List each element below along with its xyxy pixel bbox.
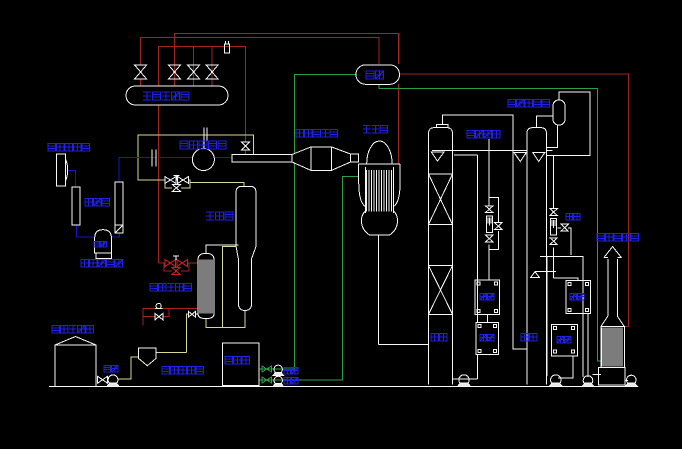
HX4 drop to pump	[558, 356, 573, 378]
label absorber 2	[521, 334, 537, 341]
silencer right	[115, 182, 123, 225]
evaporator vessel	[236, 186, 256, 310]
manifold M2 bypass valve	[155, 313, 163, 320]
water pump 1	[273, 365, 284, 375]
manifold M1 red valve B	[177, 260, 188, 267]
yellow bypass line	[138, 157, 165, 180]
yellow bypass valves line	[176, 179, 178, 181]
column1 bottoms line	[453, 378, 478, 380]
valve V2	[169, 65, 181, 79]
air filter	[56, 154, 67, 186]
water valve 2	[262, 377, 272, 383]
red manifold M1 main line	[159, 262, 166, 264]
spray nozzle flag 3	[533, 152, 545, 161]
valve V5 steam to duct	[242, 142, 250, 150]
spray feed line	[432, 150, 527, 152]
pump 5	[582, 376, 594, 387]
label HX2	[480, 334, 494, 340]
absorber column 2	[527, 128, 547, 385]
yellow bypass loop right	[181, 180, 190, 188]
water valve 1	[262, 366, 272, 372]
air duct	[232, 155, 292, 163]
bypass tee instrument	[173, 176, 179, 181]
tail gas stack arrow	[604, 247, 621, 258]
steam drum vessel	[356, 65, 400, 85]
spray nozzle flag 4	[531, 272, 540, 278]
second line valve upper	[550, 209, 557, 216]
manifold M1 bypass valve	[172, 268, 180, 275]
green drum bottom to tail-gas unit	[379, 84, 601, 361]
red steam header H1	[175, 34, 400, 87]
tail gas base	[599, 368, 626, 386]
column 1 overhead line	[442, 115, 527, 349]
pump 4	[549, 375, 562, 387]
yellow evaporator side line	[223, 247, 236, 328]
yellow preheater box top	[138, 135, 253, 157]
second line side valve	[561, 224, 568, 231]
red manifold M2 bypass right	[163, 308, 169, 316]
green cooling water to oxidizer	[260, 176, 359, 380]
wire red drum to oxidizer	[398, 84, 400, 164]
product take-off line	[454, 154, 478, 156]
label roots blower	[81, 260, 123, 267]
label muffler	[85, 199, 110, 206]
red manifold M1 bypass right	[181, 263, 189, 271]
blue air line preheater to duct	[214, 157, 232, 159]
label methanol tank	[52, 326, 94, 333]
label product outlet	[467, 131, 500, 138]
manifold M2 instrument valve	[155, 303, 163, 308]
plate HX 4	[552, 324, 578, 356]
second product line with valves	[554, 155, 579, 280]
label tail gas unit	[597, 234, 639, 241]
pump5 to stack base	[593, 374, 601, 376]
plate HX 3	[566, 281, 590, 314]
label methanol filter	[162, 367, 204, 374]
yellow bypass to evaporator	[189, 180, 244, 186]
methanol filter	[139, 348, 157, 366]
valve V3	[188, 65, 200, 79]
HX1 to HX2 connector	[486, 315, 488, 323]
blue air line blower to check box	[111, 233, 119, 237]
column 2 lower spray line	[535, 270, 556, 272]
oxidizer vessel	[359, 141, 401, 345]
label water pumps	[284, 367, 298, 373]
product bypass valve	[495, 223, 502, 230]
product valve lower	[486, 235, 494, 242]
red manifold M1 to reboiler	[188, 262, 199, 264]
methanol metering tank	[55, 337, 96, 387]
label demister	[508, 100, 550, 107]
HX3 drop to pump	[587, 314, 589, 377]
pump 6	[625, 375, 637, 386]
label steam distributor	[143, 92, 189, 100]
yellow pump to filter	[118, 357, 139, 379]
wire red stub valve1	[140, 79, 142, 86]
wire red distributor to manifold M1	[158, 105, 160, 263]
product strainer	[486, 216, 492, 233]
absorber column 1	[429, 125, 453, 385]
product line to HX2	[477, 155, 479, 322]
roots blower	[95, 230, 112, 259]
manifold M1 tee instrument	[173, 256, 179, 260]
label steam drum	[366, 71, 384, 79]
steam distributor vessel	[126, 86, 228, 105]
instrument on steam header	[225, 41, 230, 53]
muffler	[72, 187, 80, 225]
label HX3	[570, 293, 584, 299]
check valve box	[115, 225, 123, 233]
yellow methanol filter to reboiler	[186, 314, 188, 352]
methanol reboiler	[198, 253, 214, 318]
soft water tank	[223, 343, 260, 386]
label oxidizer	[363, 126, 388, 133]
oxidizer inlet to column line	[379, 344, 429, 346]
yellow reboiler valve stub	[195, 313, 198, 315]
flange pair on air line	[152, 150, 156, 167]
label absorber 1	[431, 334, 447, 341]
blue air line filter to muffler	[69, 170, 76, 187]
wire red drum to tail-gas unit	[400, 74, 629, 327]
blue air line muffler to blower	[77, 225, 95, 237]
label soft water tank	[225, 357, 250, 364]
HX2 to pump riser	[476, 355, 478, 380]
bypass valve A	[165, 177, 176, 184]
wire red steam to duct	[245, 150, 247, 155]
reboiler outlet valve	[189, 312, 196, 317]
label blower vfd	[94, 241, 106, 247]
tail gas absorber body	[601, 327, 624, 368]
wire red drop valve4	[211, 47, 213, 87]
red steam header H3	[159, 47, 246, 143]
wire red stub valve2	[174, 79, 176, 86]
header to HX4	[546, 257, 548, 376]
tail gas stack column	[608, 259, 617, 316]
wire red drop valve3	[193, 47, 195, 87]
label methanol reboiler	[150, 284, 192, 291]
red steam header H2	[141, 38, 379, 66]
valve V4	[206, 65, 218, 79]
label air preheater	[180, 141, 226, 149]
spray nozzle flag 1	[431, 152, 444, 161]
yellow bypass loop	[165, 180, 172, 188]
reboiler tube hatch	[200, 260, 212, 314]
demister overhead loop	[547, 92, 591, 155]
label HX4	[557, 336, 571, 342]
demister vessel	[553, 100, 565, 125]
column 1 packing section 1	[429, 174, 453, 225]
product outlet line with valves	[489, 139, 498, 280]
wire red drum top right	[398, 34, 400, 65]
pump6 suction line	[624, 379, 628, 381]
label HX1	[480, 293, 494, 299]
reboiler vapor line	[206, 245, 238, 253]
green feedwater line to drum	[260, 74, 356, 369]
label evaporator	[206, 212, 233, 220]
plate HX 2	[476, 322, 498, 354]
ground line	[49, 386, 637, 388]
filter flame arrester	[292, 147, 359, 171]
label pump vfd	[104, 365, 118, 371]
tail gas body hatch	[602, 328, 622, 367]
plate HX 1	[475, 280, 500, 315]
label flame arrester	[296, 130, 338, 137]
methanol pump	[107, 375, 119, 386]
spray nozzle flag 2	[514, 152, 527, 161]
column 2 overhead to demister	[537, 116, 553, 128]
demister drain line	[547, 125, 558, 148]
valve V1	[135, 65, 147, 79]
red manifold M2 to reboiler	[163, 307, 199, 309]
tail gas stack flare	[601, 316, 624, 327]
bypass valve B	[178, 177, 189, 184]
air preheater blower circle	[192, 128, 214, 171]
column 1 packing section 2	[429, 266, 453, 315]
red manifold M2 bypass	[143, 316, 154, 318]
product valve upper	[486, 206, 494, 213]
metering tank valve	[97, 376, 107, 383]
bypass lower valve	[172, 185, 180, 192]
manifold M1 red valve A	[165, 260, 176, 267]
label air filter	[48, 144, 90, 151]
blue air line silencer to preheater	[119, 158, 192, 182]
yellow reboiler bottom loop	[206, 311, 245, 328]
yellow filter right line	[157, 351, 187, 353]
second line strainer	[550, 218, 556, 235]
red manifold M2 line	[143, 308, 155, 325]
water pump 2	[273, 376, 284, 386]
label to absorber3	[566, 213, 580, 219]
red manifold M1 bypass	[164, 263, 172, 271]
oxidizer tube hatch	[367, 170, 392, 212]
pump 3	[458, 375, 471, 387]
second line valve lower	[550, 238, 557, 245]
right section header line	[540, 257, 583, 378]
